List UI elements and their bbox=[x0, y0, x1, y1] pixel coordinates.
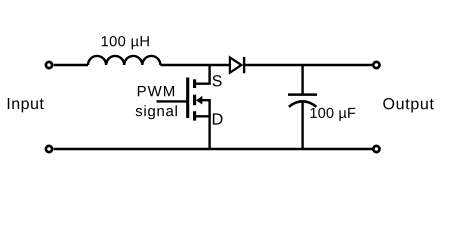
wire inductor to diode anode bbox=[160, 64, 230, 66]
label 100uF bbox=[311, 108, 356, 121]
MOSFET Q1 source channel stub bbox=[193, 79, 196, 88]
inductor L1 100uH bbox=[88, 56, 160, 65]
label Input bbox=[8, 98, 44, 112]
label PWM bbox=[138, 86, 174, 96]
pin label D bbox=[213, 113, 223, 124]
wire capacitor to bottom rail bbox=[301, 102, 303, 149]
output terminal top-right bbox=[373, 62, 379, 68]
capacitor C1 curved plate bbox=[289, 101, 317, 107]
MOSFET Q1 gate lead wire bbox=[157, 100, 188, 102]
MOSFET Q1 drain lead bbox=[195, 116, 210, 149]
diode D1 triangle bbox=[230, 57, 242, 72]
output terminal bottom-right bbox=[373, 146, 379, 152]
diode D1 cathode bar bbox=[243, 57, 245, 73]
MOSFET Q1 source lead bbox=[195, 65, 210, 84]
MOSFET Q1 body lead bbox=[201, 100, 210, 116]
MOSFET Q1 body channel stub bbox=[193, 95, 196, 106]
input terminal bottom-left bbox=[46, 146, 52, 152]
wire top-left to inductor bbox=[54, 64, 88, 66]
capacitor C1 top plate bbox=[288, 93, 317, 96]
label Output bbox=[383, 98, 434, 112]
bottom rail wire bbox=[54, 148, 372, 150]
MOSFET Q1 drain channel stub bbox=[193, 111, 196, 120]
input terminal top-left bbox=[46, 62, 52, 68]
wire diode to output terminal bbox=[244, 64, 372, 66]
MOSFET Q1 gate bar bbox=[186, 78, 189, 119]
label 100uH bbox=[102, 36, 149, 49]
label signal bbox=[136, 105, 177, 119]
pin label S bbox=[213, 75, 222, 86]
wire top to capacitor bbox=[301, 65, 303, 94]
MOSFET Q1 body arrow bbox=[196, 96, 202, 105]
